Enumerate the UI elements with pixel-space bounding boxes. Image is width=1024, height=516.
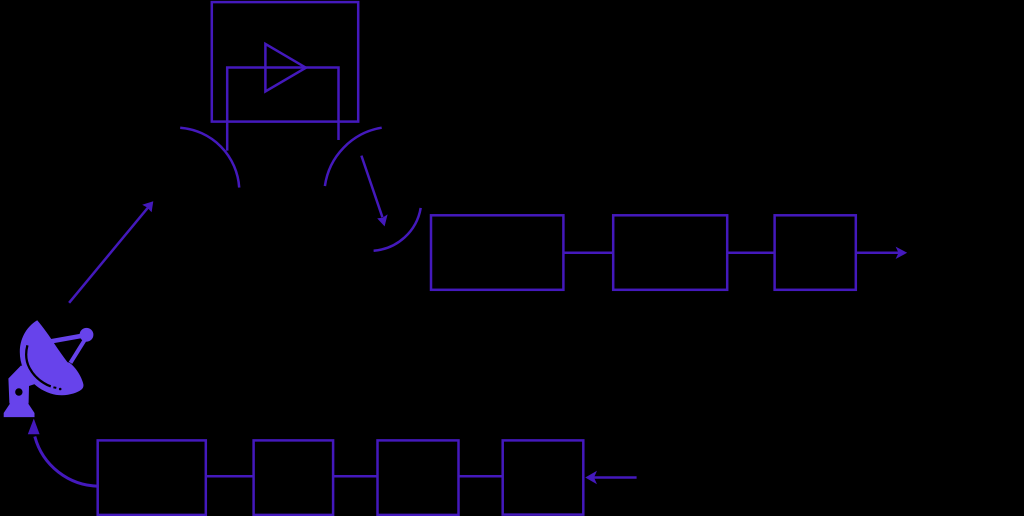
feed arm — [50, 335, 87, 342]
middle chain box C — [775, 215, 856, 289]
downlink arrow shaft — [361, 156, 382, 218]
bottom chain box 1 — [98, 440, 206, 515]
bottom chain box 4 — [503, 440, 584, 514]
left horn arc — [180, 128, 239, 188]
right horn arc — [325, 128, 382, 186]
transponder inner box (open bottom, sides extend to horn feeds) — [227, 68, 338, 151]
wire box1-box2 — [206, 475, 254, 478]
output arrow shaft — [856, 252, 899, 255]
dish bowl — [20, 320, 84, 395]
uplink arrow shaft — [69, 208, 148, 303]
ground dish arc — [374, 208, 421, 251]
feed strut — [71, 340, 85, 363]
pedestal hole — [15, 388, 22, 395]
feed ball — [80, 328, 94, 342]
satellite outer box — [212, 2, 358, 122]
base — [4, 403, 35, 417]
feedback curved arrow — [35, 437, 99, 487]
pedestal — [8, 366, 35, 404]
uplink arrowhead — [142, 201, 153, 212]
dish rim dash — [53, 386, 56, 389]
input arrow shaft — [594, 476, 637, 479]
bottom chain box 3 — [378, 440, 459, 515]
middle chain box B — [613, 215, 727, 289]
feedback arrowhead — [28, 419, 40, 435]
wire box2-box3 — [333, 475, 377, 478]
bottom chain box 2 — [254, 440, 334, 515]
wire A-B — [563, 252, 613, 255]
dish inner slit — [26, 345, 51, 386]
downlink arrowhead — [377, 214, 387, 226]
dish rim dot — [59, 388, 62, 391]
wire box3-box4 — [459, 475, 503, 478]
amplifier triangle — [265, 44, 306, 92]
input arrowhead — [585, 471, 597, 484]
wire B-C — [727, 252, 774, 255]
output arrowhead — [896, 247, 908, 259]
ground station dish icon — [4, 320, 94, 417]
middle chain box A — [431, 215, 563, 289]
